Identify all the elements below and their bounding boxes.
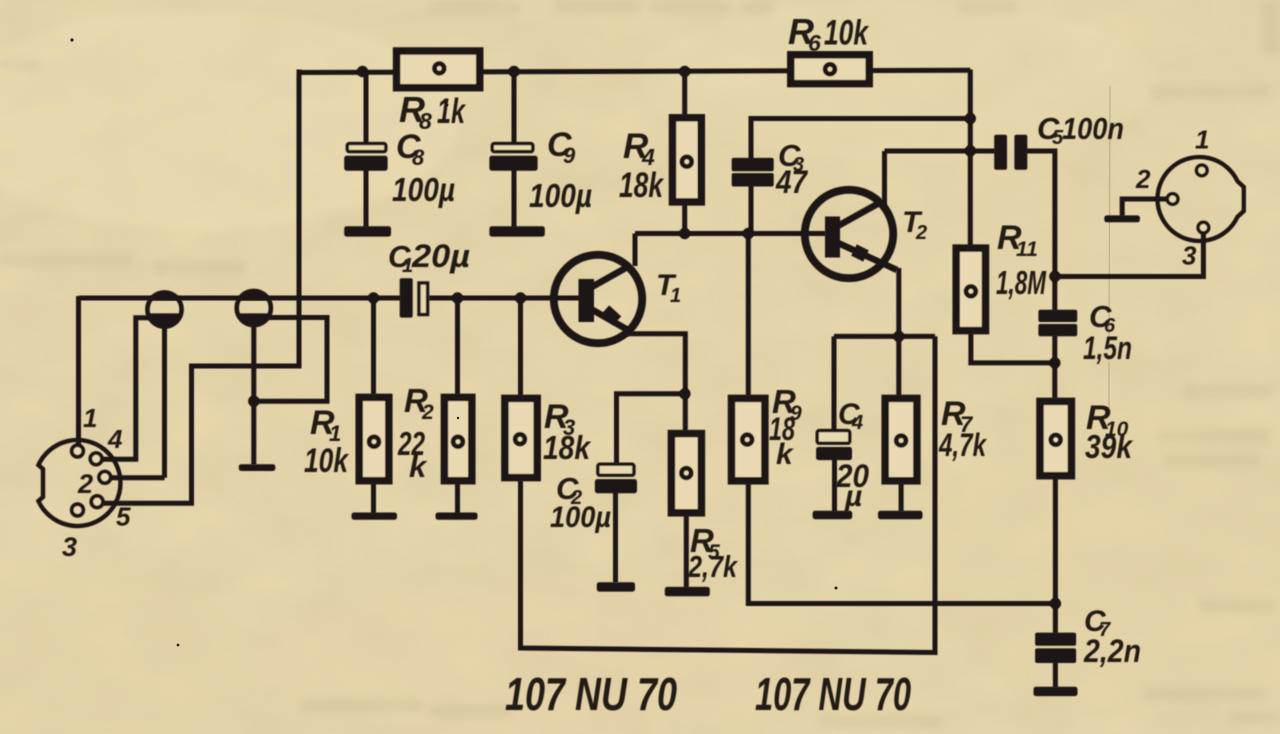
wire C7 top lead [1053, 604, 1058, 634]
label pin 1 right DIN [1195, 125, 1209, 155]
svg-text:8: 8 [419, 108, 432, 134]
svg-text:3: 3 [1182, 240, 1197, 270]
wire R2 top lead [455, 298, 460, 395]
wire top supply rail [299, 70, 971, 72]
junction on input line at R3 [515, 292, 526, 303]
wire C6 top lead [1052, 276, 1057, 310]
svg-text:1: 1 [1195, 125, 1209, 155]
label C2 100u [550, 471, 611, 534]
ground bar under jack J2 node [239, 464, 275, 471]
wire R9 bottom lead to lower rail toward C7 node [748, 484, 1055, 604]
junction on input line at R1 [368, 292, 379, 303]
svg-text:k: k [409, 449, 428, 484]
wire C6 bottom lead to R10 top [1052, 336, 1057, 399]
svg-text:107 NU 70: 107 NU 70 [755, 668, 911, 720]
wire T1 emitter to node above R5 and to C2 [617, 334, 686, 464]
ground bar under R2 [436, 513, 478, 520]
svg-text:k: k [776, 438, 794, 471]
junction output node C5 / R11 / pin3 [1049, 271, 1060, 282]
label pin 5 left DIN [116, 502, 131, 532]
svg-text:2: 2 [77, 469, 93, 499]
junction on supply rail at C9 [508, 66, 519, 77]
wire from pin 4 up to jack J1 left edge [102, 318, 151, 460]
label R5 2.7k [687, 522, 738, 584]
jack socket J1 [147, 292, 181, 328]
wire R5 bottom lead [684, 516, 689, 588]
label C3 47 [775, 138, 809, 200]
label C5 100n [1037, 111, 1124, 149]
ink specks (scan artifacts) [70, 38, 1011, 646]
resistor R1 10k [359, 397, 389, 480]
label R9 18k [769, 383, 802, 471]
wire C7 bottom lead [1053, 662, 1058, 688]
wire from pin 2 to jack J1 bottom [111, 475, 165, 480]
label R8 1k [399, 89, 466, 134]
capacitor C5 100n [994, 135, 1027, 170]
svg-text:39k: 39k [1085, 428, 1133, 465]
svg-text:1,8M: 1,8M [996, 264, 1047, 301]
resistor R2 22k [444, 397, 471, 480]
capacitor C2 100u [595, 464, 637, 493]
wire C5 left lead from T2 collector corner [885, 149, 996, 154]
jack socket J2 [237, 291, 271, 327]
resistor R4 18k [673, 118, 702, 202]
junction on input line at R2 [452, 292, 463, 303]
svg-text:3: 3 [62, 532, 77, 562]
svg-text:11: 11 [1016, 238, 1038, 261]
label C7 2.2n [1083, 605, 1141, 669]
svg-text:1: 1 [83, 403, 97, 433]
svg-text:1: 1 [670, 285, 681, 307]
pin 4 of left DIN [90, 453, 102, 465]
label T1 [656, 269, 681, 307]
DIN connector (input, left) [38, 440, 120, 526]
resistor R10 39k [1040, 401, 1071, 475]
pin 1 of left DIN [72, 445, 84, 457]
transistor T2 107NU70 [805, 190, 897, 278]
pin 5 of left DIN [91, 496, 103, 508]
junction R10 / C7 / lower rail [1050, 598, 1061, 609]
junction right vertical / C5 / T2 collector [965, 145, 976, 156]
wire C9 top lead [512, 72, 517, 145]
svg-text:100µ: 100µ [550, 501, 611, 534]
svg-text:18k: 18k [619, 166, 664, 205]
wire jack J2 apex down to ground node [251, 324, 256, 465]
label R7 4.7k [938, 395, 987, 463]
label R3 18k [543, 398, 591, 466]
wire from main input rail down to pin 1 of left DIN [76, 296, 81, 446]
label pin 1 left DIN [83, 403, 97, 433]
resistor R6 10k (horizontal) [791, 55, 869, 84]
label pin 4 left DIN [107, 424, 123, 454]
label R2 22k [397, 382, 434, 484]
wire R3 top lead [518, 298, 523, 396]
label C6 1.5n [1083, 299, 1132, 366]
wire R3 bottom lead to bottom feedback rail up to T2 emitter node [521, 336, 936, 652]
wire output node to pin 3 of right DIN [1055, 233, 1204, 277]
capacitor C9 100u [489, 144, 537, 171]
junction on supply rail at C8 [357, 66, 368, 77]
wire jack J1 bottom apex down [162, 325, 167, 478]
svg-text:8: 8 [412, 145, 425, 170]
wire R2 bottom lead [455, 484, 460, 514]
wire R10 bottom lead [1053, 479, 1058, 604]
pin 1 of right DIN [1197, 165, 1208, 176]
wire C4 bottom lead [832, 459, 837, 512]
ground terminal bar of C8 [344, 226, 391, 236]
label R6 10k [788, 11, 869, 56]
svg-text:2: 2 [421, 401, 434, 424]
svg-text:2,7k: 2,7k [687, 549, 738, 584]
resistor R11 1.8M [956, 248, 985, 331]
svg-text:2,2n: 2,2n [1083, 633, 1141, 669]
transistor T1 107NU70 [554, 255, 642, 343]
svg-text:1k: 1k [437, 92, 466, 131]
svg-text:107 NU 70: 107 NU 70 [505, 668, 677, 720]
wire main input line C1 to T1 base [429, 296, 580, 301]
capacitor C4 20u [816, 431, 852, 461]
label R10 39k [1085, 399, 1133, 465]
svg-text:µ: µ [844, 480, 862, 513]
wire C8 bottom lead [364, 169, 369, 227]
ground bar under C7 [1034, 687, 1078, 696]
svg-text:4: 4 [107, 424, 123, 454]
label T2 [902, 206, 927, 244]
wire T1 collector vertical [633, 234, 638, 267]
label R1 10k [304, 404, 350, 480]
pin 3 of left DIN [72, 504, 84, 516]
label pin 2 right DIN [1135, 164, 1151, 194]
svg-text:100µ: 100µ [392, 171, 455, 208]
pin 2 of right DIN [1167, 194, 1178, 205]
capacitor C3 47 [732, 158, 774, 187]
junction jack J2 ground node [248, 396, 259, 407]
ground bar under R1 [352, 513, 398, 520]
wire main input line left of C1 [79, 296, 401, 301]
wire C3 bottom lead [749, 186, 754, 234]
wire supply rail right corner down to R11 top [968, 70, 973, 246]
wire R7 bottom lead [899, 484, 904, 512]
capacitor C7 2.2n [1035, 633, 1076, 663]
ground bar under C4 [813, 511, 853, 519]
pin 2 of left DIN [99, 472, 111, 484]
paper crease artifact [1109, 86, 1110, 408]
svg-text:4,7k: 4,7k [938, 427, 987, 463]
label pin 3 left DIN [62, 532, 77, 562]
svg-text:1,5n: 1,5n [1083, 330, 1132, 366]
junction on supply rail at R4 [679, 66, 690, 77]
wire C3 top lead to right vertical [751, 119, 970, 160]
wire C5 right lead down to output node [1027, 151, 1055, 276]
label C4 20u [835, 398, 869, 513]
junction right vertical / C3 line [965, 113, 976, 124]
label C8 100u [392, 128, 455, 208]
ground terminal bar of C9 [489, 226, 544, 236]
resistor R7 4.7k [885, 398, 917, 480]
label R4 18k [619, 127, 664, 205]
wire T1 collector to T2 base line [635, 231, 826, 236]
junction T2 base / C3 / R9 [743, 228, 754, 239]
svg-text:100n: 100n [1062, 111, 1124, 146]
svg-text:2: 2 [915, 222, 927, 244]
pin 3 of right DIN [1198, 222, 1209, 233]
wire R11 bottom lead to C6 lower node [971, 334, 1055, 363]
wire R9 top lead [746, 234, 751, 396]
svg-text:20µ: 20µ [411, 238, 470, 274]
capacitor C1 20u [400, 278, 428, 317]
wire T2 emitter vertical [896, 268, 901, 336]
svg-text:47: 47 [775, 164, 809, 200]
svg-text:4: 4 [851, 412, 863, 434]
wire jack J2 right chord to ground node [254, 318, 327, 402]
wire C9 bottom lead [512, 169, 517, 227]
junction R11 / C6 / R10 [1049, 357, 1060, 368]
label R11 1.8M [996, 219, 1047, 301]
resistor R5 2.7k [671, 434, 701, 513]
resistor R3 18k [505, 398, 537, 477]
svg-text:6: 6 [808, 30, 821, 56]
svg-text:9: 9 [563, 143, 576, 168]
resistor R9 18k [732, 398, 765, 480]
wire R7 top lead [896, 336, 901, 395]
wire C4 top lead [832, 336, 837, 430]
svg-text:18k: 18k [543, 429, 591, 466]
wire R1 top lead [371, 298, 376, 395]
ground bar at right DIN pin 2 [1104, 215, 1140, 222]
svg-text:10k: 10k [304, 442, 350, 480]
resistor R8 1k (horizontal) [397, 51, 480, 88]
capacitor C6 1.5n [1038, 310, 1077, 337]
wire R4 top lead [682, 72, 687, 116]
DIN connector (output, right) [1157, 157, 1243, 241]
wire T2 collector vertical [882, 151, 887, 206]
wire R1 bottom lead [371, 484, 376, 514]
wire R5 top lead [683, 394, 688, 431]
svg-text:5: 5 [116, 502, 131, 532]
wire T2 emitter node horizontal [834, 334, 935, 339]
wire R4 bottom lead [682, 205, 687, 234]
ground bar under R5 [665, 587, 710, 596]
svg-text:10k: 10k [824, 14, 869, 53]
label pin 3 right DIN [1182, 240, 1197, 270]
label C1 20u [388, 238, 470, 277]
label pin 2 left DIN [77, 469, 93, 499]
svg-text:2: 2 [1135, 164, 1151, 194]
label C9 100u [529, 126, 592, 214]
wire C2 bottom lead [613, 492, 618, 583]
svg-text:100µ: 100µ [529, 177, 592, 214]
ground bar under C2 [597, 582, 635, 591]
ground bar under R7 [878, 511, 923, 519]
wire right DIN pin 2 to ground [1122, 199, 1167, 216]
junction T1 collector / R4 [679, 228, 690, 239]
wire from R8 left end down to pin 5 of left DIN [103, 70, 299, 504]
junction T2 emitter / C4 / R7 [893, 331, 904, 342]
junction T1 emitter / R5 / C2 [679, 388, 690, 399]
wire C8 top lead [364, 72, 369, 145]
capacitor C8 100u [344, 144, 387, 171]
